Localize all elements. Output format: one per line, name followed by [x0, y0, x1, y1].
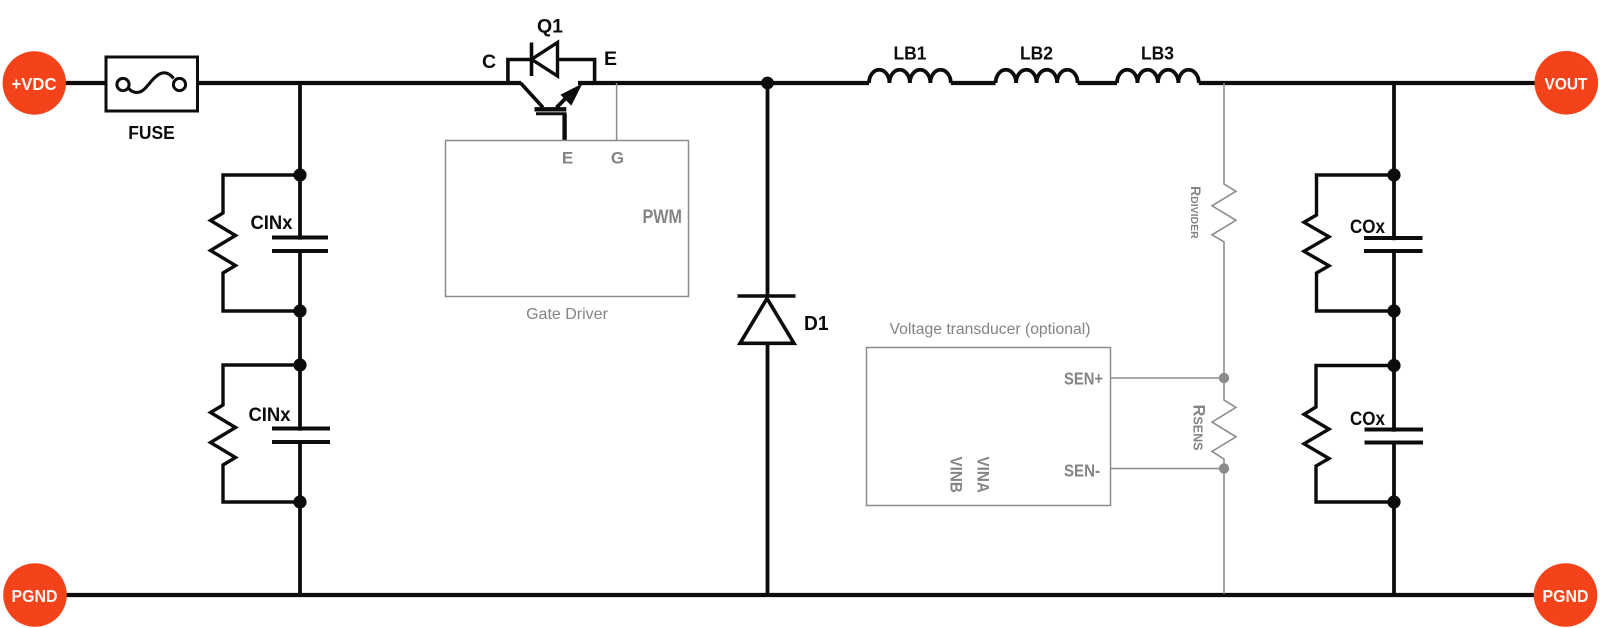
- svg-text:VINA: VINA: [974, 457, 992, 493]
- wire D1 anode riser: [766, 83, 770, 296]
- svg-text:LB2: LB2: [1020, 43, 1053, 64]
- diode cathode bar: [530, 43, 534, 77]
- gate wire to driver: [562, 114, 566, 141]
- wire SEN- to transducer (gray): [1110, 468, 1220, 470]
- terminal +VDC: [3, 51, 66, 114]
- transistor Q1 (IGBT with anti-parallel diode): [508, 43, 595, 142]
- resistor loop of CIN1 (bleed resistor): [211, 175, 301, 311]
- svg-text:+VDC: +VDC: [12, 74, 57, 94]
- wire LB1 to LB2: [951, 81, 996, 85]
- label RDIVIDER: [1188, 186, 1204, 239]
- wire Q1 emitter to LB1, through node A: [578, 81, 869, 85]
- resistor loop of CO1 (bleed resistor): [1304, 175, 1394, 311]
- capacitor CINx (2): [272, 429, 330, 443]
- node A junction dot: [761, 77, 774, 90]
- svg-text:FUSE: FUSE: [128, 122, 175, 143]
- capacitor COx (2): [1365, 430, 1424, 443]
- node CO2 top: [1387, 359, 1400, 372]
- terminal VOUT: [1535, 51, 1599, 115]
- label RSENS: [1190, 405, 1208, 451]
- terminal PGND right: [1534, 563, 1598, 627]
- IGBT body bar: [535, 107, 567, 111]
- svg-text:SEN-: SEN-: [1064, 461, 1100, 481]
- pin label VINB: [947, 457, 965, 493]
- node CO2 bottom: [1387, 495, 1400, 508]
- svg-text:CINx: CINx: [249, 404, 291, 426]
- IGBT gate bar: [536, 112, 567, 115]
- wire LB3 to VOUT: [1199, 81, 1536, 85]
- node CIN2 top: [293, 358, 306, 371]
- wire RSENS to ground rail (gray): [1223, 469, 1225, 595]
- pin label VINA: [974, 457, 992, 493]
- svg-text:COx: COx: [1350, 216, 1385, 238]
- svg-text:E: E: [562, 149, 573, 168]
- capacitor COx (1): [1364, 238, 1423, 251]
- svg-text:SEN+: SEN+: [1064, 369, 1103, 389]
- svg-text:VINB: VINB: [947, 457, 965, 493]
- svg-text:RSENS: RSENS: [1190, 405, 1208, 451]
- node SEN+ (gray): [1219, 373, 1229, 383]
- inductor LB1: [869, 70, 951, 83]
- capacitor CINx (1): [272, 238, 328, 252]
- diode triangle: [532, 43, 558, 77]
- diode D1 cathode bar: [738, 294, 796, 298]
- svg-text:CINx: CINx: [251, 212, 293, 234]
- svg-text:LB3: LB3: [1141, 43, 1174, 64]
- resistor RDIVIDER branch (gray): [1212, 83, 1236, 373]
- svg-text:COx: COx: [1350, 408, 1385, 430]
- svg-text:Q1: Q1: [537, 16, 563, 38]
- voltage transducer box (optional): [867, 348, 1111, 506]
- svg-text:PGND: PGND: [1543, 586, 1589, 606]
- node CIN1 bottom: [293, 304, 306, 317]
- inductor LB2: [996, 70, 1078, 83]
- wire COx branch vertical: [1392, 83, 1396, 595]
- svg-text:VOUT: VOUT: [1545, 75, 1589, 94]
- svg-text:D1: D1: [804, 313, 829, 335]
- resistor RSENS (gray): [1212, 378, 1236, 468]
- node SEN- (gray): [1219, 463, 1229, 473]
- svg-text:Voltage transducer (optional): Voltage transducer (optional): [890, 321, 1091, 338]
- svg-text:E: E: [604, 48, 617, 70]
- inductor LB3: [1117, 70, 1199, 83]
- fuse FUSE: [106, 57, 198, 111]
- IGBT emitter line: [557, 90, 575, 108]
- resistor loop of CO2 (bleed resistor): [1304, 366, 1394, 503]
- svg-text:C: C: [482, 51, 496, 73]
- wire D1 to ground rail: [766, 343, 770, 595]
- node CIN1 top: [293, 168, 306, 181]
- resistor loop of CIN2 (bleed resistor): [211, 365, 301, 502]
- wire top rail left: +VDC to fuse: [63, 81, 106, 85]
- wire bottom ground rail: [64, 593, 1536, 597]
- diode D1 triangle: [740, 299, 794, 344]
- svg-text:PWM: PWM: [643, 207, 683, 228]
- gate driver box: [446, 141, 689, 297]
- wire CIN branch vertical: [298, 83, 302, 595]
- wire SEN+ to transducer (gray): [1110, 377, 1220, 379]
- IGBT emitter arrow: [560, 84, 582, 106]
- wire fuse to Q1 collector: [197, 81, 521, 85]
- IGBT collector diagonal: [521, 83, 543, 108]
- svg-text:Gate Driver: Gate Driver: [526, 306, 608, 323]
- wire gray G sense from emitter node: [616, 83, 618, 141]
- node CO1 bottom: [1387, 304, 1400, 317]
- node CIN2 bottom: [293, 495, 306, 508]
- node CO1 top: [1387, 168, 1400, 181]
- svg-text:G: G: [611, 149, 624, 168]
- svg-text:PGND: PGND: [12, 586, 58, 606]
- terminal PGND left: [3, 563, 67, 627]
- upper diode loop wire: [508, 60, 595, 84]
- wire LB2 to LB3: [1078, 81, 1117, 85]
- svg-text:LB1: LB1: [894, 43, 927, 64]
